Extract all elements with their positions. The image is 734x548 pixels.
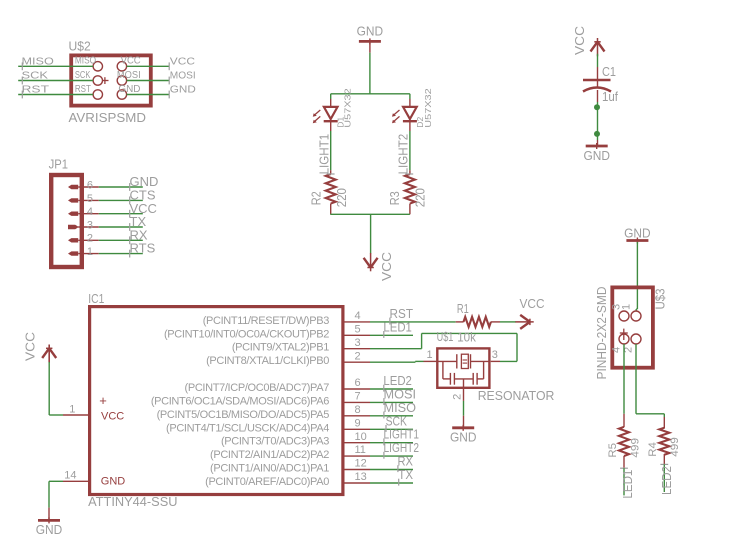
svg-text:13: 13 [355, 471, 367, 483]
svg-text:14: 14 [64, 469, 76, 481]
svg-text:LIGHT2: LIGHT2 [395, 134, 410, 175]
svg-text:R5: R5 [607, 443, 619, 458]
svg-text:RESONATOR: RESONATOR [478, 388, 555, 403]
svg-text:TX: TX [398, 467, 413, 482]
svg-text:4: 4 [611, 347, 623, 353]
svg-text:11: 11 [355, 444, 366, 456]
svg-text:(PCINT8/XTAL1/CLKI)PB0: (PCINT8/XTAL1/CLKI)PB0 [206, 355, 329, 367]
svg-text:10k: 10k [457, 329, 476, 344]
svg-text:GND: GND [101, 476, 126, 488]
svg-text:GND: GND [170, 85, 196, 96]
svg-text:+: + [99, 393, 107, 408]
svg-text:MOSI: MOSI [170, 71, 196, 82]
svg-text:499: 499 [669, 437, 681, 457]
svg-text:5: 5 [87, 193, 93, 205]
svg-text:U57X32: U57X32 [424, 88, 433, 128]
svg-text:3: 3 [87, 219, 93, 231]
svg-text:VCC: VCC [23, 332, 38, 361]
svg-text:SCK: SCK [22, 71, 49, 82]
svg-text:R1: R1 [457, 301, 469, 316]
svg-text:VCC: VCC [121, 56, 141, 67]
svg-text:2: 2 [355, 350, 361, 362]
svg-text:6: 6 [87, 179, 93, 191]
svg-text:1: 1 [427, 349, 433, 361]
svg-text:8: 8 [355, 404, 361, 416]
svg-text:GND: GND [36, 522, 63, 537]
svg-text:(PCINT0/AREF/ADC0)PA0: (PCINT0/AREF/ADC0)PA0 [205, 476, 329, 488]
svg-text:(PCINT5/OC1B/MISO/DO/ADC5)PA5: (PCINT5/OC1B/MISO/DO/ADC5)PA5 [157, 409, 330, 421]
svg-text:(PCINT11/RESET/DW)PB3: (PCINT11/RESET/DW)PB3 [203, 315, 330, 327]
svg-text:3: 3 [492, 349, 498, 361]
svg-text:IC1: IC1 [88, 291, 104, 306]
svg-text:MOSI: MOSI [117, 70, 141, 81]
svg-text:LIGHT1: LIGHT1 [316, 134, 331, 175]
svg-text:ATTINY44-SSU: ATTINY44-SSU [88, 494, 177, 509]
svg-text:3: 3 [355, 337, 361, 349]
svg-text:1: 1 [69, 403, 75, 415]
svg-text:499: 499 [630, 438, 642, 458]
svg-text:RST: RST [75, 84, 91, 95]
svg-text:(PCINT2/AIN1/ADC2)PA2: (PCINT2/AIN1/ADC2)PA2 [210, 449, 329, 461]
svg-text:220: 220 [413, 188, 428, 207]
svg-text:220: 220 [334, 188, 349, 207]
svg-text:VCC: VCC [572, 26, 587, 55]
svg-text:2: 2 [87, 233, 93, 245]
svg-text:4: 4 [87, 206, 93, 218]
svg-text:5: 5 [355, 323, 361, 335]
svg-text:LED1: LED1 [383, 319, 412, 334]
svg-text:GND: GND [357, 24, 384, 39]
svg-text:(PCINT1/AIN0/ADC1)PA1: (PCINT1/AIN0/ADC1)PA1 [210, 463, 329, 475]
svg-text:1uf: 1uf [602, 89, 618, 104]
svg-text:(PCINT4/T1/SCL/USCK/ADC4)PA4: (PCINT4/T1/SCL/USCK/ADC4)PA4 [166, 422, 329, 434]
svg-text:2: 2 [452, 394, 464, 400]
svg-text:12: 12 [355, 458, 367, 470]
svg-text:6: 6 [355, 377, 361, 389]
svg-text:U$2: U$2 [69, 39, 91, 54]
svg-text:SCK: SCK [75, 70, 91, 81]
svg-text:VCC: VCC [520, 296, 545, 311]
svg-text:RTS: RTS [130, 241, 156, 256]
svg-text:MISO: MISO [75, 56, 96, 67]
svg-text:(PCINT6/OC1A/SDA/MOSI/ADC6)PA6: (PCINT6/OC1A/SDA/MOSI/ADC6)PA6 [151, 395, 329, 407]
svg-text:(PCINT7/ICP/OC0B/ADC7)PA7: (PCINT7/ICP/OC0B/ADC7)PA7 [185, 382, 330, 394]
svg-text:10: 10 [355, 431, 367, 443]
svg-text:R3: R3 [387, 191, 402, 205]
svg-text:9: 9 [355, 417, 361, 429]
svg-text:R4: R4 [647, 442, 659, 457]
svg-text:PINHD-2X2-SMD: PINHD-2X2-SMD [594, 287, 609, 380]
svg-text:(PCINT9/XTAL2)PB1: (PCINT9/XTAL2)PB1 [232, 342, 329, 354]
svg-text:VCC: VCC [379, 252, 394, 281]
svg-text:GND: GND [118, 84, 140, 95]
svg-text:MISO: MISO [22, 56, 55, 67]
svg-text:RST: RST [22, 85, 50, 96]
svg-text:4: 4 [355, 310, 361, 322]
svg-text:C1: C1 [602, 64, 616, 79]
svg-text:U$3: U$3 [653, 289, 668, 310]
svg-text:(PCINT10/INT0/OC0A/CKOUT)PB2: (PCINT10/INT0/OC0A/CKOUT)PB2 [164, 328, 329, 340]
svg-text:1: 1 [621, 304, 633, 310]
svg-text:7: 7 [355, 391, 361, 403]
svg-text:AVRISPSMD: AVRISPSMD [69, 110, 147, 125]
svg-text:R2: R2 [309, 191, 324, 205]
svg-text:GND: GND [624, 225, 651, 240]
svg-text:U$1: U$1 [437, 329, 454, 344]
svg-text:VCC: VCC [170, 56, 195, 67]
svg-text:JP1: JP1 [49, 157, 68, 172]
svg-text:VCC: VCC [101, 411, 124, 423]
svg-text:(PCINT3/T0/ADC3)PA3: (PCINT3/T0/ADC3)PA3 [221, 436, 329, 448]
svg-text:U57X32: U57X32 [343, 88, 352, 128]
svg-text:GND: GND [583, 148, 610, 163]
svg-text:1: 1 [87, 246, 93, 258]
svg-text:LED1: LED1 [620, 470, 635, 499]
svg-text:GND: GND [450, 430, 477, 445]
svg-text:LED2: LED2 [659, 466, 674, 495]
